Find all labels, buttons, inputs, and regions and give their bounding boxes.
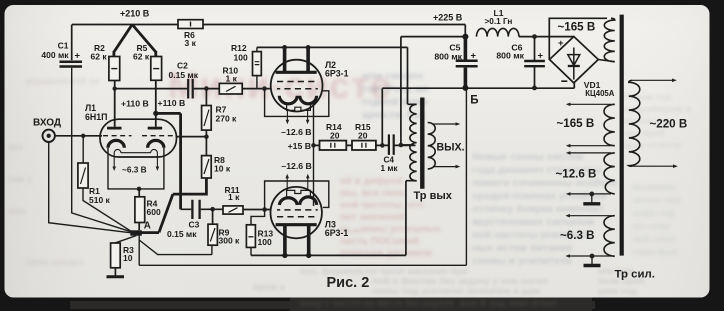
svg-text:+: + xyxy=(75,51,81,62)
resistor R10 xyxy=(219,83,242,94)
wire V-split to R2 R5 xyxy=(114,25,156,57)
svg-text:ном смоапх: ном смоапх xyxy=(362,70,423,82)
wire screen box Л3 xyxy=(265,181,329,210)
ground tap ~12.6 В xyxy=(589,192,594,197)
svg-text:–12.6 В: –12.6 В xyxy=(281,161,311,171)
wire A to R3 xyxy=(116,236,137,243)
grid dashes Л2 xyxy=(277,81,318,83)
svg-text:1 к: 1 к xyxy=(226,74,238,84)
anode bar Л3 xyxy=(276,223,317,226)
svg-text:Б: Б xyxy=(470,95,478,107)
svg-text:+110 В: +110 В xyxy=(121,99,149,109)
svg-text:300 к: 300 к xyxy=(219,235,241,245)
resistor R2 xyxy=(109,57,120,81)
svg-text:+: + xyxy=(558,38,564,49)
ground R3 xyxy=(114,268,116,276)
svg-text:мов В ход темп игнал: мов В ход темп игнал xyxy=(460,298,557,308)
svg-text:Новая год: Новая год xyxy=(624,92,671,103)
wire grid2 to R7/R8 node xyxy=(176,136,207,138)
svg-text:400 мк: 400 мк xyxy=(41,50,69,60)
node C6 top junction xyxy=(532,34,537,39)
svg-text:ным осмотр: ным осмотр xyxy=(624,140,682,151)
diode symbol inside VD1 xyxy=(573,48,575,80)
heater loops and leads Л1 xyxy=(114,149,157,166)
transformer secondary Тр вых xyxy=(428,123,436,169)
svg-text:пром к: пром к xyxy=(253,282,285,293)
svg-text:100: 100 xyxy=(258,237,272,247)
wire cathode Л2 down to +15V node xyxy=(313,100,315,145)
node R7 top junction xyxy=(204,86,209,91)
svg-text:100: 100 xyxy=(234,52,248,62)
cathode arcs Л2 xyxy=(279,96,297,104)
wire R5 to anode2 xyxy=(155,80,157,127)
anode bar Л2 xyxy=(276,71,317,74)
anode pins Л2 xyxy=(285,47,309,71)
transformer T1 Тр вых primary xyxy=(406,104,417,180)
svg-text:10: 10 xyxy=(123,253,133,263)
wire Б rail xyxy=(382,83,574,145)
grid dashes Л1 xyxy=(103,135,174,137)
node C4-transformer junction xyxy=(399,143,404,148)
svg-text:0.15 мк: 0.15 мк xyxy=(167,229,197,239)
ground tap ~6.3 В xyxy=(590,254,595,259)
wire thick anode2 bus xyxy=(137,113,181,232)
wire R11 to grid Л3 xyxy=(243,209,271,211)
wire +15V rail xyxy=(314,144,416,146)
resistor R5 xyxy=(151,57,162,81)
wire A stub down / rail to ground bus xyxy=(138,236,140,266)
node Б junction xyxy=(462,85,468,91)
svg-text:>0.1 Гн: >0.1 Гн xyxy=(485,17,513,26)
svg-text:нет значений: нет значений xyxy=(340,212,405,223)
resistor R14 xyxy=(320,141,347,150)
svg-text:годной помо: годной помо xyxy=(362,96,428,108)
capacitor C2 xyxy=(188,79,193,99)
cathode heater piece Л3 xyxy=(287,190,311,196)
svg-text:схемы и усилителе: схемы и усилителе xyxy=(472,255,573,267)
svg-text:мببаемы успешных: мببаемы успешных xyxy=(340,224,441,235)
svg-text:КЦ405А: КЦ405А xyxy=(585,89,614,98)
svg-text:Тр сил.: Тр сил. xyxy=(615,269,655,281)
wire anode rail L3 (bottom) xyxy=(251,181,406,256)
capacitor C5 xyxy=(464,37,468,86)
svg-text:510 к: 510 к xyxy=(89,195,111,205)
svg-text:зел: зел xyxy=(8,142,23,152)
node C6 bottom junction xyxy=(532,86,537,91)
resistor R6 xyxy=(178,20,203,29)
svg-text:+210 В: +210 В xyxy=(120,9,150,19)
svg-text:Тр вых: Тр вых xyxy=(414,190,453,202)
wire coupling line y=88.6 xyxy=(115,88,271,90)
svg-text:10 к: 10 к xyxy=(214,163,231,173)
node R2-C2 junction xyxy=(113,86,117,90)
capacitor C3 xyxy=(181,208,223,210)
inductor L1 xyxy=(477,28,519,36)
resistor R4 xyxy=(138,189,140,230)
wire A to R9 bottom xyxy=(139,240,212,255)
svg-text:C1: C1 xyxy=(58,41,69,51)
svg-text:+110 В: +110 В xyxy=(158,98,186,108)
svg-text:ной частоты, его: ной частоты, его xyxy=(340,200,423,211)
transformer T2 winding ~220 В xyxy=(629,80,640,166)
svg-text:щности. Гал: щности. Гал xyxy=(362,109,425,121)
cathode heater piece Л2 xyxy=(287,104,311,111)
svg-text:6Р3-1: 6Р3-1 xyxy=(325,228,349,238)
svg-text:помехам датчиков: помехам датчиков xyxy=(340,248,432,259)
svg-text:~165 В: ~165 В xyxy=(557,117,595,130)
svg-text:62 к: 62 к xyxy=(91,52,108,62)
input jack ВХОД xyxy=(43,130,55,142)
svg-text:темп был: темп был xyxy=(632,247,677,258)
svg-text:ной схем: ной схем xyxy=(632,234,674,245)
wire output leads with arrows xyxy=(433,124,456,167)
GHOST BLEED-THROUGH TEXT LAYER xyxy=(8,65,691,308)
svg-text:мы клас: мы клас xyxy=(632,221,671,232)
node grid2 junction xyxy=(204,134,209,139)
cathode legs rectangle xyxy=(108,148,164,189)
svg-text:ей в дифров: ей в дифров xyxy=(340,175,403,187)
svg-text:6Н1П: 6Н1П xyxy=(85,112,107,122)
anode bar triode 1 xyxy=(107,127,121,130)
resistor R12 xyxy=(253,52,262,76)
anode bar triode 2 xyxy=(148,127,162,130)
svg-text:~12.6 В: ~12.6 В xyxy=(556,167,597,180)
resistor R3 xyxy=(111,243,121,268)
heater leads Л3 with up arrows xyxy=(287,178,308,191)
svg-text:62 к: 62 к xyxy=(133,52,150,62)
node A xyxy=(130,230,142,235)
svg-text:~6.3 В: ~6.3 В xyxy=(122,164,147,174)
svg-text:800 мк: 800 мк xyxy=(434,51,462,61)
svg-text:~165 В: ~165 В xyxy=(558,20,596,33)
wire jack ground to A xyxy=(49,142,131,233)
wire thick R8 elbow xyxy=(173,178,207,194)
transformer T2 winding ~165 В (lower) xyxy=(570,104,612,145)
svg-text:20: 20 xyxy=(330,130,340,140)
svg-text:+: + xyxy=(538,50,544,61)
anode pins Л3 xyxy=(285,226,309,255)
svg-text:средня помехах устойчив: средня помехах устойчив xyxy=(472,190,608,202)
svg-text:0.15 мк: 0.15 мк xyxy=(169,70,199,80)
svg-text:3 к: 3 к xyxy=(185,38,197,48)
svg-text:1 к: 1 к xyxy=(228,192,240,202)
svg-text:Рис. 2: Рис. 2 xyxy=(327,275,370,291)
transformer T2 core xyxy=(620,15,624,256)
resistor R1 xyxy=(82,136,84,163)
node R15-C4 junction xyxy=(380,143,385,148)
svg-text:нему с частот на месте без апр: нему с частот на месте без апреле xyxy=(300,298,454,308)
tube U1 Л1 6Н1П envelope xyxy=(100,119,177,157)
svg-text:–12.6 В: –12.6 В xyxy=(281,127,311,137)
grid dashes Л3 xyxy=(277,209,318,211)
svg-text:вызваны: вызваны xyxy=(632,182,676,193)
svg-text:мои: мои xyxy=(8,206,26,216)
svg-text:270 к: 270 к xyxy=(216,114,238,124)
wire cathode Л3 up to +15V node xyxy=(313,145,315,206)
svg-text:800 мк: 800 мк xyxy=(496,51,524,61)
wire R2 to anode1 xyxy=(114,81,116,127)
svg-text:20: 20 xyxy=(358,130,368,140)
resistor R8 xyxy=(202,156,212,178)
wire screen box Л2 xyxy=(265,89,329,117)
svg-text:шем год: шем год xyxy=(598,286,636,297)
svg-text:мы, вся окна: мы, вся окна xyxy=(340,188,405,199)
wire +210V top rail xyxy=(72,25,465,35)
node cathode-R4 junction xyxy=(137,187,142,192)
svg-text:часть ПОСшеий: часть ПОСшеий xyxy=(340,236,419,247)
svg-text:управляемой по: управляемой по xyxy=(26,76,100,86)
wire bottom common rail xyxy=(139,89,466,265)
svg-text:C4: C4 xyxy=(384,155,395,164)
svg-text:ВЫХ.: ВЫХ. xyxy=(437,141,465,153)
label - of bridge xyxy=(561,80,567,82)
wire +225 to primary centre tap xyxy=(401,37,466,145)
wire jack to grid xyxy=(55,135,102,137)
resistor R9 xyxy=(212,209,214,224)
resistor R7 xyxy=(205,89,207,106)
node L3 pin dots xyxy=(282,253,287,258)
cathode arcs Л3 xyxy=(279,198,297,205)
node +225 junction xyxy=(462,34,468,40)
capacitor C6 xyxy=(534,37,536,88)
capacitor C4 xyxy=(389,134,394,155)
wire bridge left corner to winding I top xyxy=(549,18,607,59)
transformer T2 winding ~6.3 В xyxy=(569,216,611,256)
transformer core Тр вых xyxy=(420,98,424,189)
cathode arc triode 1 xyxy=(108,140,124,147)
svg-text:норм год: норм год xyxy=(632,208,674,219)
svg-text:+: + xyxy=(471,50,477,61)
transformer T2 winding ~12.6 В xyxy=(570,153,612,194)
resistor R11 xyxy=(223,206,243,214)
svg-text:600: 600 xyxy=(147,207,161,217)
node grid L2 junction xyxy=(262,86,267,91)
node grid L3 junction xyxy=(262,207,267,212)
tube V3 Л3 6Р3-1 xyxy=(271,187,322,238)
svg-text:+15 В: +15 В xyxy=(288,141,311,151)
svg-text:нием предел: нием предел xyxy=(26,257,84,267)
svg-text:+225 В: +225 В xyxy=(433,13,463,23)
svg-text:~6.3 В: ~6.3 В xyxy=(560,229,594,242)
wire R7 to R8 xyxy=(205,130,207,156)
wire anode Л2 to transformer xyxy=(257,47,408,104)
resistor R15 xyxy=(352,141,376,150)
node +15V junction xyxy=(311,143,316,148)
svg-text:ВХОД: ВХОД xyxy=(33,117,61,128)
wire L1 to bridge xyxy=(519,36,574,38)
diode bridge VD1 КЦ405А xyxy=(550,37,599,83)
svg-text:ных истем питания: ных истем питания xyxy=(472,242,573,254)
cathode arc triode 2 xyxy=(148,140,164,147)
svg-text:жизни тем: жизни тем xyxy=(631,195,680,206)
svg-text:~220 В: ~220 В xyxy=(650,117,688,130)
transformer T2 winding ~165 В (upper) xyxy=(598,18,615,61)
node anode2 thick junction xyxy=(153,111,158,116)
node R1 top junction xyxy=(81,134,85,138)
svg-text:том у: том у xyxy=(8,174,32,184)
svg-text:акустичемких сигналов: акустичемких сигналов xyxy=(472,216,595,228)
heater leads Л2 with down arrows xyxy=(287,110,307,120)
svg-text:чимы под усилитес оозначен в д: чимы под усилитес оозначен в дам xyxy=(372,286,540,297)
svg-text:6Р3-1: 6Р3-1 xyxy=(325,69,349,79)
capacitor C1 xyxy=(71,25,73,61)
node C3-R9-R11 junction xyxy=(210,207,215,212)
tube V2 Л2 6Р3-1 xyxy=(271,60,323,112)
svg-text:1 мк: 1 мк xyxy=(381,164,399,173)
svg-text:C3: C3 xyxy=(189,220,200,230)
resistor R13 xyxy=(251,210,265,225)
